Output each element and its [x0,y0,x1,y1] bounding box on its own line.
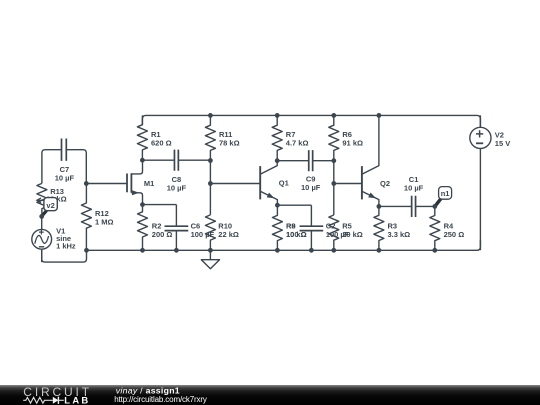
node R6-C9 [331,158,336,163]
resistor R9 [272,205,306,250]
wire R11 to Q1 base [210,161,260,215]
node rail-C2 [309,248,314,253]
svg-text:10 µF: 10 µF [167,183,187,192]
node Q1 collector [275,158,280,163]
wire bottom rail [87,240,481,250]
capacitor C6 [165,205,215,251]
svg-text:Q1: Q1 [279,179,289,188]
svg-text:v2: v2 [46,201,54,210]
transistor Q2 [362,115,390,206]
wire Q1 emitter to C2 [277,204,311,206]
resistor R1 [137,115,171,160]
node n1 flag [435,187,452,207]
node rail-R6 [331,113,336,118]
resistor R2 [138,205,173,251]
svg-text:http://circuitlab.com/ck7rxry: http://circuitlab.com/ck7rxry [114,395,207,404]
resistor R7 [272,115,308,160]
CircuitLab logo [23,385,92,405]
source V2 [470,115,510,250]
node R11-C8 [208,158,213,163]
resistor R10 [205,215,239,250]
node M1 drain [140,158,145,163]
resistor R12 [81,184,113,251]
svg-text:620 Ω: 620 Ω [151,138,172,147]
svg-text:10 µF: 10 µF [55,173,75,182]
resistor R4 [430,206,464,250]
svg-text:20 kΩ: 20 kΩ [342,230,363,239]
svg-text:vinay / assign1: vinay / assign1 [116,385,180,395]
capacitor C2 [300,205,350,250]
node rail-C6 [174,248,179,253]
svg-text:91 kΩ: 91 kΩ [342,138,363,147]
wire V1 bottom dip [42,249,87,262]
node Q1 base tee [208,181,213,186]
resistor R8 (overlapped label) [286,221,307,238]
ground [201,250,219,268]
svg-text:78 kΩ: 78 kΩ [219,138,240,147]
resistor R11 [205,115,239,160]
wire M1 gate [86,183,127,185]
node rail-R4 [432,248,437,253]
resistor R3 [374,206,410,250]
node rail-R2 [140,248,145,253]
capacitor C7 [42,139,86,184]
node rail-R11 [208,113,213,118]
node Q2 base tee [331,181,336,186]
svg-text:15 V: 15 V [495,139,510,148]
svg-text:10 µF: 10 µF [301,183,321,192]
wire top supply rail [142,115,480,127]
resistor R6 [329,115,363,160]
node rail-R12 [84,248,89,253]
node rail-Q2c [377,113,382,118]
url [114,395,207,404]
wire M1 source to C6 [143,204,177,206]
node M1 source [140,202,145,207]
wire R6 to Q2 base [334,161,362,215]
svg-text:250 Ω: 250 Ω [444,230,465,239]
svg-text:LAB: LAB [64,395,90,405]
node v2 [39,214,44,219]
svg-text:1 kHz: 1 kHz [56,241,76,250]
source V1 [32,216,76,262]
node rail-R5 [331,248,336,253]
node rail-R7 [275,113,280,118]
node rail-gnd [208,248,213,253]
node gate [84,181,89,186]
resistor R5 [329,215,363,250]
node Q2 emitter [377,204,382,209]
capacitor C8 [142,150,210,193]
capacitor C9 [277,150,334,192]
svg-text:Q2: Q2 [380,179,390,188]
resistor R13 [37,183,67,216]
svg-text:10 µF: 10 µF [404,184,424,193]
transistor M1 [127,160,154,204]
node n1 [432,204,437,209]
svg-text:4.7 kΩ: 4.7 kΩ [286,138,309,147]
capacitor C1 [379,175,435,217]
node v2 flag [37,198,57,217]
svg-text:1 MΩ: 1 MΩ [95,218,114,227]
byline [116,385,180,395]
node Q1 emitter [275,203,280,208]
svg-text:3.3 kΩ: 3.3 kΩ [388,230,411,239]
node rail-R3 [377,248,382,253]
svg-text:M1: M1 [144,179,154,188]
svg-text:22 kΩ: 22 kΩ [218,230,239,239]
node rail-R9 [275,248,280,253]
transistor Q1 [260,161,289,206]
svg-text:n1: n1 [441,189,450,198]
